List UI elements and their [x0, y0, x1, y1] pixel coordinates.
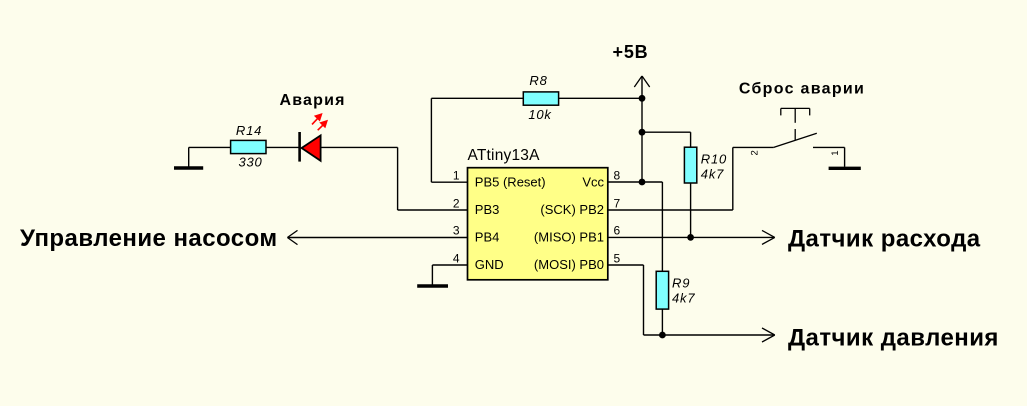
svg-text:Управление насосом: Управление насосом: [20, 225, 278, 252]
node Vcc pin8 junction: [639, 179, 646, 186]
ground (pin 4): [417, 284, 448, 287]
svg-text:5: 5: [614, 251, 621, 265]
svg-text:PB5 (Reset): PB5 (Reset): [475, 175, 546, 190]
wire R10 bottom to pin6 line: [690, 183, 692, 237]
wire pin 8 to rail: [608, 181, 663, 183]
svg-text:(MISO) PB1: (MISO) PB1: [534, 230, 604, 245]
node R10/pin6 junction: [687, 234, 694, 241]
svg-text:R14: R14: [236, 123, 262, 138]
svg-text:1: 1: [830, 150, 841, 155]
wire to R8 left: [431, 97, 523, 99]
svg-text:2: 2: [453, 196, 460, 210]
svg-text:R10: R10: [701, 152, 727, 167]
LED VD1 Авария: [300, 132, 321, 162]
wire pin 7 to switch: [608, 209, 733, 211]
IC U1 ATtiny13A: [468, 147, 608, 280]
ground (left, LED chain): [174, 147, 203, 168]
wire ground to R14: [189, 146, 231, 148]
LED emission arrows: [312, 113, 328, 130]
svg-text:4k7: 4k7: [701, 166, 724, 181]
svg-text:R9: R9: [672, 275, 690, 290]
port Управление насосом (pin 3): [20, 225, 468, 252]
resistor R9: [656, 271, 695, 309]
svg-text:4k7: 4k7: [672, 291, 695, 306]
svg-text:Датчик расхода: Датчик расхода: [788, 225, 981, 252]
port Датчик давления (pin 5 / R9): [644, 324, 999, 351]
svg-text:4: 4: [453, 251, 460, 265]
resistor R8: [523, 73, 558, 122]
svg-text:PB4: PB4: [475, 230, 500, 245]
svg-text:2: 2: [749, 150, 760, 155]
wire pin 5 down and right: [608, 264, 644, 266]
svg-text:10k: 10k: [528, 107, 552, 122]
svg-text:ATtiny13A: ATtiny13A: [468, 147, 541, 164]
wire R8 right to +5V rail: [559, 97, 642, 99]
port Датчик расхода (pin 6): [608, 225, 981, 252]
node R10 branch junction: [639, 129, 646, 136]
wire LED to corner: [321, 146, 398, 148]
power +5V: [613, 42, 650, 182]
svg-text:7: 7: [614, 196, 621, 210]
svg-text:330: 330: [238, 155, 262, 170]
resistor R10: [684, 147, 727, 183]
svg-text:Сброс аварии: Сброс аварии: [739, 81, 865, 98]
svg-text:3: 3: [453, 224, 460, 238]
wire to pin 2: [398, 209, 468, 211]
svg-text:+5В: +5В: [613, 42, 649, 62]
svg-text:PB3: PB3: [475, 202, 500, 217]
wire pin1 vertical from R8: [430, 98, 432, 182]
svg-text:1: 1: [453, 168, 460, 182]
svg-text:Авария: Авария: [279, 92, 345, 109]
node R9/pin5 junction: [659, 332, 666, 339]
wire R9 bottom to pressure line: [661, 309, 663, 335]
node R8/+5V junction: [639, 95, 646, 102]
svg-text:6: 6: [614, 224, 621, 238]
svg-text:8: 8: [614, 168, 621, 182]
svg-text:Vcc: Vcc: [582, 175, 604, 190]
switch SB1 Сброс аварии: [733, 108, 845, 155]
wire switch to ground: [844, 147, 846, 166]
wire rail down to R9: [661, 182, 663, 271]
svg-text:GND: GND: [475, 257, 504, 272]
resistor R14: [231, 123, 266, 170]
wire R14 to LED: [266, 146, 299, 148]
wire to pin 1: [431, 181, 467, 183]
svg-text:(MOSI) PB0: (MOSI) PB0: [534, 257, 604, 272]
wire pin 4 to ground: [432, 264, 467, 266]
svg-text:Датчик давления: Датчик давления: [788, 324, 999, 351]
svg-text:R8: R8: [529, 73, 547, 88]
ground (switch): [829, 167, 861, 170]
wire +5V branch to R10: [642, 131, 691, 133]
svg-text:(SCK) PB2: (SCK) PB2: [540, 202, 604, 217]
wire corner down: [397, 147, 399, 210]
